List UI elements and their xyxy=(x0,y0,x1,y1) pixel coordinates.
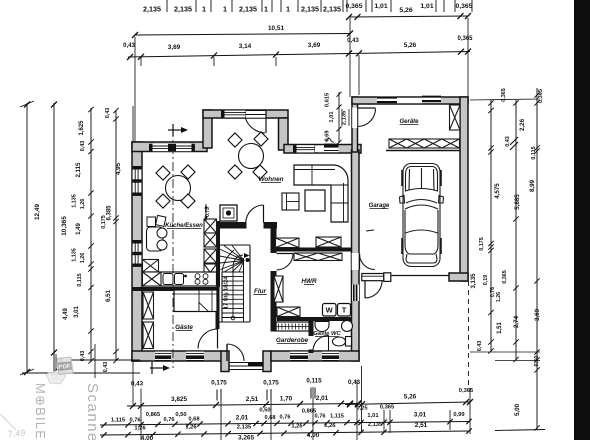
svg-text:1,26: 1,26 xyxy=(291,424,303,430)
svg-text:6,51: 6,51 xyxy=(105,289,112,302)
wall bump left xyxy=(203,110,212,148)
car in garage xyxy=(400,164,444,267)
window right wall south xyxy=(352,285,359,302)
svg-text:5,26: 5,26 xyxy=(399,7,412,14)
svg-text:Gäste: Gäste xyxy=(175,324,193,331)
svg-text:3,69: 3,69 xyxy=(168,44,181,51)
svg-text:M⊕BILE SC: M⊕BILE SC xyxy=(33,383,48,440)
side table against left wall xyxy=(147,227,164,251)
svg-text:6,385: 6,385 xyxy=(107,205,113,221)
svg-text:1,26: 1,26 xyxy=(134,426,146,432)
sideboard 2 on HWR wall xyxy=(316,237,341,247)
svg-text:8,99: 8,99 xyxy=(529,179,536,192)
stairs outline xyxy=(220,244,251,246)
svg-text:4,575: 4,575 xyxy=(494,183,501,199)
svg-text:1,51: 1,51 xyxy=(497,322,503,334)
window garage top wall 2 xyxy=(422,96,441,103)
svg-text:0,99: 0,99 xyxy=(453,412,465,418)
stairs treads xyxy=(222,271,244,273)
svg-text:1,26: 1,26 xyxy=(324,423,336,429)
svg-text:1: 1 xyxy=(223,5,227,14)
dim mini chain wall garage/house xyxy=(338,92,340,143)
svg-text:5,00: 5,00 xyxy=(514,403,521,416)
round table Essen with chairs xyxy=(166,176,191,201)
wall interior kitchen/stair xyxy=(217,221,221,287)
svg-text:3,69: 3,69 xyxy=(534,308,541,321)
dim chain left 12,49 xyxy=(26,103,28,373)
svg-text:0,43: 0,43 xyxy=(123,43,135,49)
svg-text:0,76: 0,76 xyxy=(130,418,141,424)
svg-text:T: T xyxy=(342,306,347,315)
entrance sidelight window xyxy=(248,363,263,366)
dim line 10,51 xyxy=(135,34,350,36)
right block horizontal refs xyxy=(470,351,540,353)
Geraete tall cupboard xyxy=(450,105,461,130)
svg-text:0,76: 0,76 xyxy=(280,415,291,421)
svg-text:0,50: 0,50 xyxy=(534,356,540,367)
svg-text:0,68: 0,68 xyxy=(188,417,200,423)
dim row D line xyxy=(100,422,470,426)
svg-text:0,68: 0,68 xyxy=(265,415,276,421)
svg-text:1,115: 1,115 xyxy=(330,414,344,420)
svg-text:5,26: 5,26 xyxy=(404,42,417,49)
svg-text:0,76: 0,76 xyxy=(315,414,326,420)
svg-text:0,43: 0,43 xyxy=(347,38,359,44)
WC sink xyxy=(315,322,329,332)
section arrow bottom xyxy=(150,367,163,369)
window bump top wall xyxy=(224,111,246,118)
svg-text:1,01: 1,01 xyxy=(374,3,387,10)
svg-text:0,365: 0,365 xyxy=(502,270,508,284)
svg-text:1,01: 1,01 xyxy=(329,111,335,123)
svg-text:1,26: 1,26 xyxy=(80,253,86,264)
window left wall upper (Essen) xyxy=(133,169,142,193)
svg-text:3,265: 3,265 xyxy=(238,435,254,440)
svg-text:0,175: 0,175 xyxy=(263,380,279,387)
garage small dash mark xyxy=(366,230,374,231)
svg-text:2,135: 2,135 xyxy=(301,5,319,14)
window bottom wall Gaeste 1 xyxy=(155,352,171,361)
dryer T xyxy=(338,304,351,317)
svg-text:0,43: 0,43 xyxy=(131,381,144,388)
svg-text:1,115: 1,115 xyxy=(111,418,126,424)
dim chain right outer xyxy=(536,88,538,430)
svg-text:Flur: Flur xyxy=(254,288,267,295)
wall bottom-left exterior xyxy=(132,351,225,361)
svg-text:2,135: 2,135 xyxy=(174,5,192,14)
svg-text:2,51: 2,51 xyxy=(415,422,428,429)
svg-text:2,51: 2,51 xyxy=(246,396,259,403)
shelf lower line xyxy=(386,150,460,152)
svg-text:0,50: 0,50 xyxy=(259,408,270,414)
svg-text:1,49: 1,49 xyxy=(76,223,82,235)
left block bottom reference lines xyxy=(22,372,140,374)
washer W xyxy=(323,304,337,317)
stairs pivot dot xyxy=(246,258,250,262)
svg-text:0,365: 0,365 xyxy=(459,388,474,394)
garage step block xyxy=(362,274,384,281)
svg-text:3,135: 3,135 xyxy=(471,273,477,289)
svg-text:17 Stg 18/24: 17 Stg 18/24 xyxy=(224,276,230,309)
wall bump top xyxy=(203,110,288,118)
door Gaeste xyxy=(217,329,219,349)
HWR shelf bottom xyxy=(277,307,300,317)
window garage top wall white gap xyxy=(397,98,422,103)
svg-text:10,51: 10,51 xyxy=(268,25,284,32)
wall interior HWR/WC xyxy=(277,317,352,321)
svg-text:1,70: 1,70 xyxy=(280,396,293,403)
svg-text:3,825: 3,825 xyxy=(171,396,187,403)
svg-text:2,01: 2,01 xyxy=(316,395,329,402)
svg-text:10,365: 10,365 xyxy=(61,216,68,236)
svg-text:0,365: 0,365 xyxy=(455,3,472,10)
WC toilet xyxy=(333,337,346,346)
svg-text:Garage: Garage xyxy=(369,203,390,209)
svg-text:0,19: 0,19 xyxy=(483,275,489,286)
wall left exterior xyxy=(132,142,142,361)
right block bottom line xyxy=(495,430,545,431)
wall interior WC left upper xyxy=(309,321,314,336)
wall interior Wohnen/HWR xyxy=(277,248,352,252)
svg-text:0,115: 0,115 xyxy=(531,146,537,159)
dim row B line xyxy=(127,404,359,407)
right block top reference xyxy=(470,99,540,100)
wall top-left exterior xyxy=(132,142,207,152)
Garderobe coat rail xyxy=(276,322,309,331)
wardrobe Gaeste 1 xyxy=(143,292,154,319)
svg-text:2,115: 2,115 xyxy=(76,162,82,177)
svg-text:2,135: 2,135 xyxy=(239,5,257,14)
svg-text:12,49: 12,49 xyxy=(34,204,41,220)
svg-text:1,26: 1,26 xyxy=(80,199,86,210)
svg-text:3,01: 3,01 xyxy=(414,412,427,419)
svg-text:1,01: 1,01 xyxy=(367,413,379,419)
WC boiler circle xyxy=(342,321,353,332)
HWR tall cupboard xyxy=(274,276,283,302)
svg-text:1: 1 xyxy=(286,5,290,14)
door HWR to garage xyxy=(352,253,359,270)
svg-text:0,365: 0,365 xyxy=(345,3,362,10)
svg-text:4,95: 4,95 xyxy=(115,162,122,175)
svg-text:0,865: 0,865 xyxy=(146,412,161,418)
svg-text:0,69: 0,69 xyxy=(325,130,331,142)
wall bump right xyxy=(279,118,289,150)
extension line left wall top xyxy=(132,106,134,142)
window left wall lower (Kueche) xyxy=(133,243,142,264)
entrance porch edge xyxy=(228,369,263,371)
wall interior Kueche/Gaeste xyxy=(132,287,220,291)
window garage top wall 1 xyxy=(377,97,397,104)
door Wohnen/Flur xyxy=(263,205,265,223)
HWR long shelf top xyxy=(294,253,342,261)
svg-text:0,365: 0,365 xyxy=(457,36,473,42)
wall interior Wohnen/Flur xyxy=(219,222,247,229)
window Wohnen top wall 2 shutter xyxy=(324,145,339,152)
dim row E line xyxy=(100,431,470,435)
svg-text:0,175: 0,175 xyxy=(211,380,227,387)
wall garage top xyxy=(352,97,468,104)
svg-text:0,115: 0,115 xyxy=(306,378,322,385)
watermark PDF badge xyxy=(46,357,73,384)
wall interior jamb right of door xyxy=(264,222,278,229)
svg-text:1,135: 1,135 xyxy=(72,248,78,262)
wall bottom-right exterior xyxy=(271,351,359,361)
svg-text:2,26: 2,26 xyxy=(519,118,526,131)
svg-text:0,25: 0,25 xyxy=(356,406,368,412)
svg-text:0,43: 0,43 xyxy=(105,108,111,119)
svg-text:1,26: 1,26 xyxy=(496,292,502,302)
door garage to Geraete xyxy=(352,108,357,129)
svg-text:5,885: 5,885 xyxy=(514,194,521,210)
svg-text:0,43: 0,43 xyxy=(348,379,361,386)
garage door opening line xyxy=(392,275,450,277)
door Gaeste WC xyxy=(328,336,330,352)
svg-text:PDF: PDF xyxy=(58,364,71,371)
svg-text:0,76: 0,76 xyxy=(164,417,175,423)
svg-text:4,00: 4,00 xyxy=(307,432,320,439)
section line A-A xyxy=(172,128,174,368)
svg-text:2,135: 2,135 xyxy=(368,422,383,428)
svg-text:0,615: 0,615 xyxy=(325,92,331,107)
svg-text:2,01: 2,01 xyxy=(236,415,249,422)
sideboard 1 on HWR wall xyxy=(276,238,300,248)
svg-text:4,49: 4,49 xyxy=(63,308,69,320)
section arrow top xyxy=(168,129,181,131)
svg-text:3,01: 3,01 xyxy=(74,306,80,318)
dim row garage 0,43 5,26 0,365 xyxy=(349,52,470,54)
svg-text:HWR: HWR xyxy=(301,278,317,285)
kitchen corner cabinet xyxy=(143,260,159,273)
wall interior Gaeste/Flur xyxy=(216,291,220,329)
scan black bar right edge xyxy=(574,0,590,440)
svg-text:Wohnen: Wohnen xyxy=(258,176,283,183)
svg-text:2,135: 2,135 xyxy=(323,5,341,14)
window top-left wall (Essen north) xyxy=(152,144,192,151)
svg-text:1,01: 1,01 xyxy=(420,3,433,10)
svg-text:3,69: 3,69 xyxy=(308,42,321,49)
svg-text:Scanned: Scanned xyxy=(84,383,101,440)
extension line garage left xyxy=(349,18,351,97)
small mark above wall xyxy=(327,139,334,143)
entrance threshold xyxy=(229,362,263,364)
kitchen cabinet depth dim 0,75 xyxy=(205,204,207,221)
bottom extension verticals xyxy=(132,361,134,406)
door front entrance xyxy=(226,344,228,361)
svg-text:0,43: 0,43 xyxy=(505,136,511,147)
svg-text:1: 1 xyxy=(202,5,206,14)
svg-text:1: 1 xyxy=(264,5,268,14)
wall entrance step right xyxy=(263,351,271,372)
kitchen tall cabinets column xyxy=(204,219,217,233)
svg-text:0,175: 0,175 xyxy=(479,237,485,251)
round table Wohnen with chairs xyxy=(239,144,264,169)
extension line left house corner xyxy=(134,37,136,142)
window bottom wall Garderobe xyxy=(290,352,308,361)
kitchen counter outline xyxy=(143,272,217,286)
svg-text:W: W xyxy=(326,306,334,315)
armchair xyxy=(282,193,299,210)
Geraete/garage shelf xyxy=(389,139,460,148)
extension line garage right xyxy=(467,18,469,97)
wall interior Flur/HWR lower xyxy=(271,271,277,332)
wall top-right exterior xyxy=(284,145,361,154)
svg-text:1,625: 1,625 xyxy=(79,120,85,136)
svg-text:2,74: 2,74 xyxy=(513,315,520,328)
svg-text:Garderobe: Garderobe xyxy=(276,337,309,344)
kitchen counter x cabinet xyxy=(143,272,162,286)
stairs walk line with arrow xyxy=(231,316,235,320)
dim chain right inner xyxy=(490,100,492,352)
svg-text:0,43: 0,43 xyxy=(103,362,109,373)
svg-text:7,49: 7,49 xyxy=(7,428,25,439)
row A double ticks xyxy=(216,390,218,401)
wall right exterior xyxy=(352,150,360,361)
stairs winder treads xyxy=(220,249,245,261)
svg-text:Geräte: Geräte xyxy=(399,119,419,125)
dim chain left 10,365 / 0,50 xyxy=(53,103,55,373)
wall interior WC left lower jamb xyxy=(309,350,314,354)
dim chain left segments xyxy=(90,108,92,362)
wardrobe Gaeste 2 xyxy=(143,322,154,349)
kitchen sink xyxy=(163,274,173,285)
svg-text:0,50: 0,50 xyxy=(175,412,186,418)
svg-text:0,365: 0,365 xyxy=(380,405,395,411)
window Wohnen top wall white gap xyxy=(315,145,324,152)
dim chain right middle xyxy=(515,100,517,360)
wall interior Flur/HWR upper xyxy=(271,222,277,253)
door Flur to HWR xyxy=(277,253,294,255)
coffee table xyxy=(305,190,325,211)
extension stubs top row3 xyxy=(140,57,142,66)
window bottom wall Gaeste 2 xyxy=(186,352,204,361)
window bottom wall WC xyxy=(322,352,339,361)
door bump (terrace door Wohnen) xyxy=(246,111,266,118)
svg-text:3,14: 3,14 xyxy=(239,43,252,50)
kitchen stove burners xyxy=(195,274,200,279)
svg-text:Küche/Essen: Küche/Essen xyxy=(165,223,203,229)
dim row 0,43 3,69 3,14 3,69 xyxy=(128,54,350,58)
window Wohnen top wall 1 xyxy=(296,145,315,152)
svg-text:4,00: 4,00 xyxy=(141,435,154,440)
svg-text:5,26: 5,26 xyxy=(404,394,417,401)
svg-text:Gäste WC: Gäste WC xyxy=(313,331,341,337)
svg-text:0,365: 0,365 xyxy=(538,89,544,103)
svg-text:0,43: 0,43 xyxy=(477,341,483,352)
svg-text:0,115: 0,115 xyxy=(77,273,83,286)
chimney block xyxy=(220,205,237,221)
door garage side entrance xyxy=(364,281,366,298)
svg-text:0,43: 0,43 xyxy=(80,141,86,152)
sofa L-shape xyxy=(294,165,348,222)
bed Gaeste xyxy=(174,290,217,312)
boundary dashed line right of garage xyxy=(468,281,470,388)
wall garage left xyxy=(352,97,358,152)
dim line garage 5,26 top xyxy=(349,16,468,17)
svg-text:1,135: 1,135 xyxy=(72,194,78,208)
wall garage bottom L foot xyxy=(449,273,468,281)
chairs at side table xyxy=(157,228,167,238)
wall entrance step left xyxy=(221,351,229,372)
svg-text:1,26: 1,26 xyxy=(185,425,197,431)
dim chain left outer segments xyxy=(115,110,117,361)
svg-text:2,135: 2,135 xyxy=(143,5,161,14)
wall garage right xyxy=(460,97,468,281)
svg-text:2,135: 2,135 xyxy=(237,425,252,431)
